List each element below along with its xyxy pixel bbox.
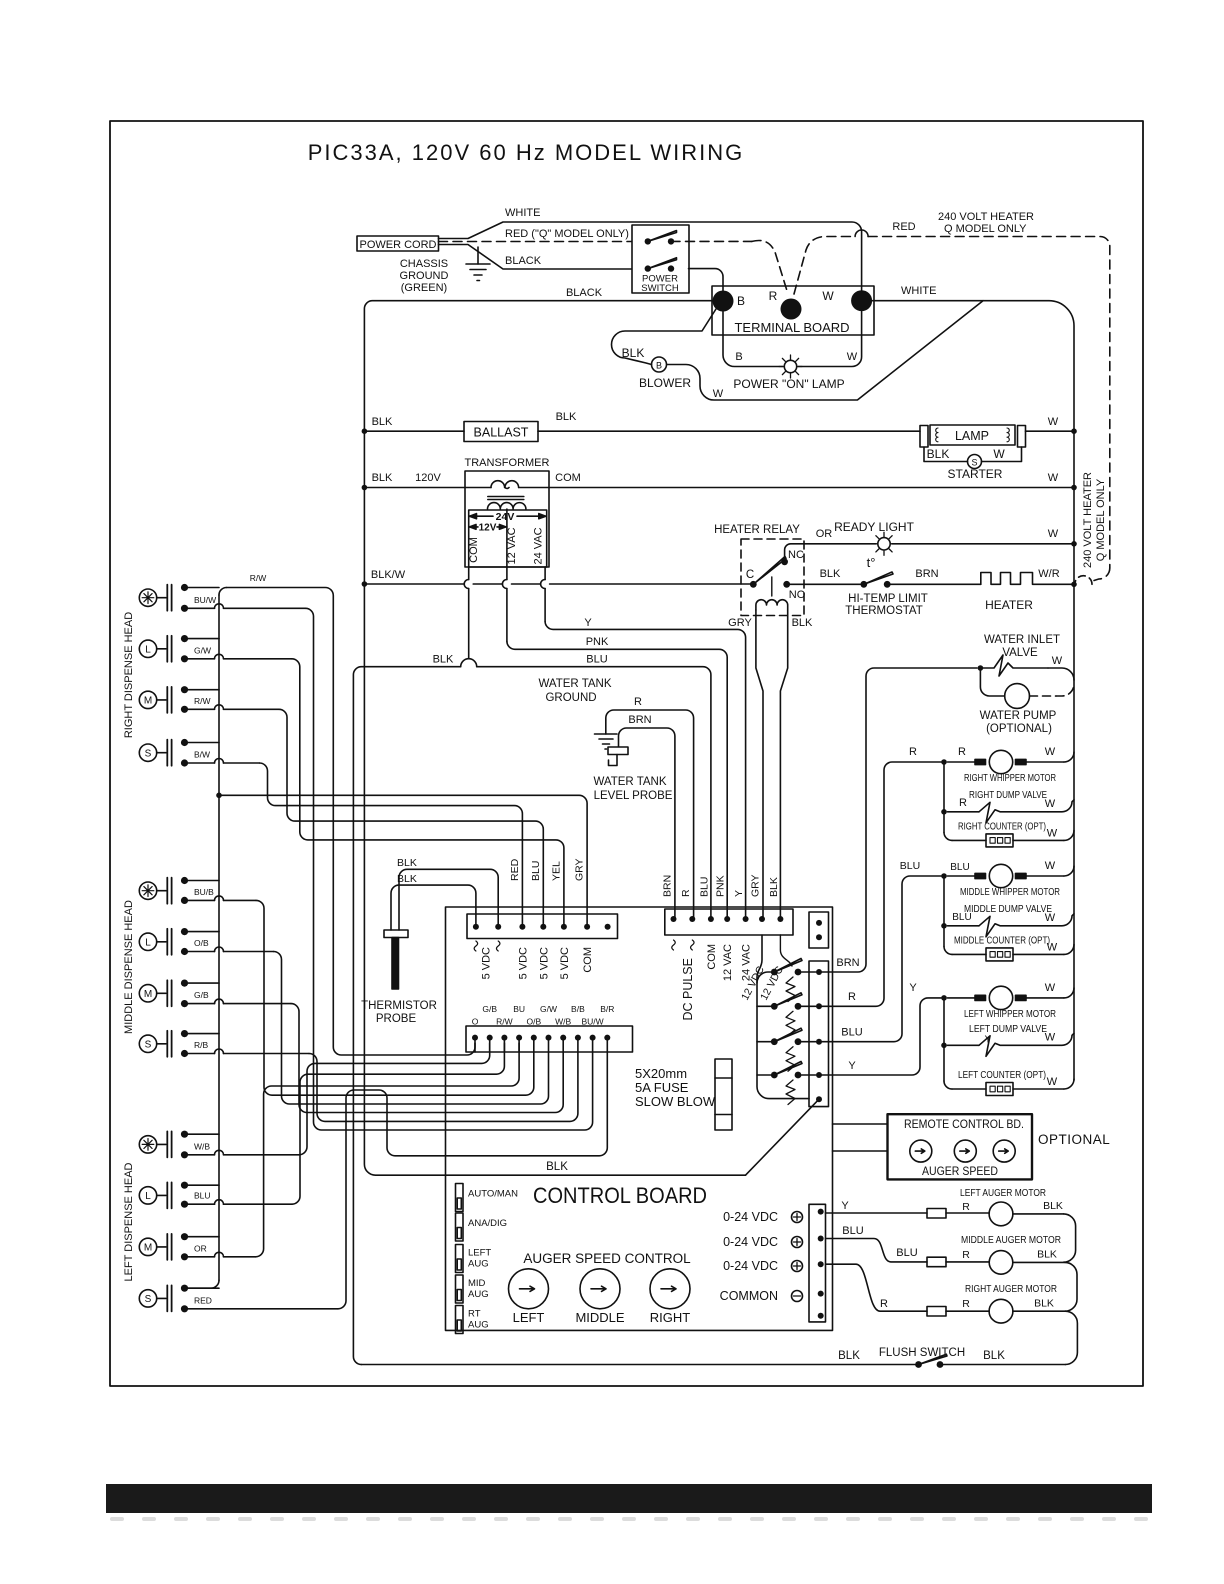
svg-text:TRANSFORMER: TRANSFORMER (465, 457, 550, 469)
label WATER PUMP (OPTIONAL) (980, 710, 1057, 735)
label W com line (1048, 472, 1059, 484)
svg-text:BLU: BLU (842, 1225, 863, 1237)
svg-text:GRY: GRY (728, 617, 752, 629)
wire thermistor BLK lower (391, 885, 476, 930)
svg-text:OR: OR (194, 1243, 207, 1253)
svg-text:W/B: W/B (555, 1017, 571, 1027)
svg-text:LEFT AUGER MOTOR: LEFT AUGER MOTOR (960, 1187, 1046, 1199)
svg-text:COM: COM (582, 947, 594, 973)
svg-text:O/B: O/B (526, 1017, 541, 1027)
dip switch ANA/DIG (456, 1213, 464, 1241)
label W ready light (1048, 528, 1059, 540)
label BLACK lower (566, 287, 603, 299)
svg-text:POWER "ON" LAMP: POWER "ON" LAMP (733, 377, 844, 391)
right dispense head S switch (139, 740, 171, 766)
label LEFT/AUG (468, 1248, 491, 1270)
label RT/AUG (468, 1309, 489, 1331)
wire G/B to J2 pin7 (291, 1004, 563, 1113)
svg-text:COM: COM (555, 472, 581, 484)
svg-text:W: W (713, 388, 724, 400)
label LEFT COUNTER (OPT) (958, 1069, 1046, 1081)
label B lamp loop (735, 351, 742, 363)
terminal B (713, 291, 746, 312)
svg-text:R: R (848, 991, 856, 1003)
wire G/W from head switch (181, 654, 292, 662)
svg-text:MIDDLE: MIDDLE (575, 1310, 624, 1325)
svg-text:WHITE: WHITE (901, 285, 936, 297)
relay 4 lever (774, 1062, 802, 1076)
wire W/B from head switch (181, 1150, 299, 1158)
svg-text:W: W (1047, 1076, 1058, 1088)
label POWER SWITCH (641, 274, 679, 295)
heater relay NC contact (781, 549, 804, 565)
node middle whipper junction (941, 873, 947, 879)
svg-text:BLU: BLU (900, 860, 920, 872)
svg-text:R: R (962, 1298, 970, 1310)
label W inlet valve (1052, 655, 1063, 667)
label W right whipper (1045, 746, 1056, 758)
svg-text:120V: 120V (415, 472, 441, 484)
terminal strip box (809, 1204, 826, 1322)
wire B/W to J1 RED (260, 763, 523, 927)
left auger resistor (927, 1209, 946, 1219)
label BLK com fork (433, 654, 454, 666)
svg-text:W: W (1045, 1031, 1056, 1043)
label O/B (194, 938, 209, 948)
svg-text:BLK: BLK (1043, 1200, 1063, 1212)
wire BRN probe to DC pulse (619, 728, 675, 919)
svg-text:B: B (735, 351, 742, 363)
label ANA/DIG (468, 1218, 507, 1229)
dip switch LEFT/AUG (456, 1245, 464, 1273)
label G/B (194, 990, 209, 1000)
svg-text:WHITE: WHITE (505, 207, 540, 219)
wire R/B from head switch (181, 1049, 309, 1057)
label R right auger (962, 1298, 970, 1310)
svg-text:W: W (847, 351, 858, 363)
power cord box (357, 236, 439, 251)
left auger motor (946, 1202, 1064, 1226)
svg-text:HEATER RELAY: HEATER RELAY (714, 524, 800, 536)
svg-text:R: R (959, 797, 967, 809)
label 24 VAC rotated (533, 527, 545, 564)
svg-text:5X20mm: 5X20mm (635, 1066, 687, 1081)
right dispense head * top contact (181, 584, 219, 591)
fluorescent lamp tube (930, 425, 1015, 445)
middle dispense head M switch (139, 980, 171, 1006)
svg-text:BRN: BRN (662, 875, 674, 897)
head common bus vertical (188, 588, 227, 1289)
heater relay armature link (771, 577, 773, 596)
relay block row wires (801, 972, 815, 1075)
middle dispense head L top contact (181, 928, 219, 935)
svg-text:GRY: GRY (750, 874, 762, 897)
label LEFT (513, 1310, 545, 1325)
wire right group vertical (944, 762, 952, 840)
relay 2 coil zigzag (786, 1011, 795, 1036)
blower circuit wire (612, 301, 984, 400)
node right whipper junction (941, 759, 947, 765)
svg-text:LEFT WHIPPER MOTOR: LEFT WHIPPER MOTOR (964, 1008, 1056, 1020)
wire BLK COM fork to flush line (353, 659, 468, 1365)
dip switch AUTO/MAN (456, 1184, 464, 1212)
svg-text:WATER INLET: WATER INLET (984, 634, 1060, 646)
node white bus at COM line (1071, 485, 1077, 491)
svg-text:S: S (145, 748, 152, 759)
label BLK thermostat (820, 568, 841, 580)
label HI-TEMP LIMIT THERMOSTAT (845, 593, 928, 617)
power switch pole 1 (red) (645, 231, 677, 245)
dip switch MID/AUG (456, 1275, 464, 1303)
right auger resistor (927, 1307, 946, 1317)
label Y wire (584, 617, 592, 629)
label LEFT DISPENSE HEAD rotated (123, 1162, 135, 1281)
svg-text:LEFT: LEFT (513, 1310, 545, 1325)
wire left group vertical (944, 998, 952, 1089)
svg-text:BU/B: BU/B (194, 887, 214, 897)
svg-text:R: R (962, 1201, 970, 1213)
wire BLU riser to J2 pin3 (292, 1043, 504, 1204)
svg-text:Q MODEL ONLY: Q MODEL ONLY (1095, 478, 1107, 561)
label BLK starter (927, 447, 950, 461)
transformer tap box (469, 510, 547, 567)
svg-text:OPTIONAL: OPTIONAL (1038, 1132, 1110, 1147)
label MIDDLE DISPENSE HEAD rotated (123, 900, 135, 1034)
wire red Q-model dashed from power cord (439, 241, 632, 243)
svg-text:THERMOSTAT: THERMOSTAT (845, 605, 923, 617)
svg-text:W: W (993, 447, 1005, 461)
svg-text:BLK: BLK (622, 346, 645, 360)
label 5 VDC pair rotated (481, 947, 493, 979)
svg-text:(GREEN): (GREEN) (401, 282, 447, 294)
label row O R/W O/B W/B BU/W (472, 1017, 604, 1027)
connector J2 box (466, 1026, 633, 1052)
svg-text:L: L (145, 644, 151, 655)
svg-text:W: W (1045, 982, 1056, 994)
svg-text:LEVEL PROBE: LEVEL PROBE (594, 790, 673, 802)
svg-text:RED: RED (509, 858, 521, 881)
label RED ("Q" MODEL ONLY) (505, 228, 629, 240)
svg-text:0-24 VDC: 0-24 VDC (723, 1210, 778, 1224)
label YEL rotated (551, 861, 563, 881)
svg-text:W: W (1045, 860, 1056, 872)
relay 3 coil zigzag (786, 1047, 795, 1072)
label WATER INLET VALVE (984, 634, 1060, 659)
node black bus at 120V line (362, 485, 368, 491)
svg-text:BLU: BLU (586, 654, 607, 666)
svg-text:O/B: O/B (194, 938, 209, 948)
label BLK thermistor 2 (397, 873, 417, 885)
right counter (952, 830, 1074, 847)
svg-text:W: W (1045, 746, 1056, 758)
remote control board box (888, 1114, 1033, 1179)
wire Y relay to left whipper group (822, 998, 941, 1075)
right whipper motor (947, 750, 1074, 773)
heater relay coil (756, 600, 788, 610)
middle auger motor (946, 1251, 1065, 1275)
svg-text:BLK: BLK (983, 1350, 1005, 1362)
water tank ground symbol (595, 720, 618, 749)
label R middle auger (962, 1249, 970, 1261)
svg-text:PNK: PNK (586, 636, 609, 648)
left whipper motor (947, 986, 1074, 1009)
svg-text:OR: OR (816, 528, 833, 540)
svg-text:AUG: AUG (468, 1259, 489, 1270)
label WATER TANK GROUND (538, 678, 611, 704)
label 5 VDC pin3 rotated (517, 947, 529, 979)
svg-text:BLOWER: BLOWER (639, 376, 691, 390)
label POWER ON LAMP (733, 377, 844, 391)
svg-text:BU: BU (513, 1004, 525, 1014)
connector J1 box (467, 914, 618, 939)
svg-text:S: S (145, 1294, 152, 1305)
svg-text:BRN: BRN (628, 714, 651, 726)
heater relay lever (753, 557, 786, 585)
svg-text:R/W: R/W (496, 1017, 513, 1027)
label W middle whipper (1045, 860, 1056, 872)
svg-text:LEFT: LEFT (468, 1248, 491, 1259)
svg-text:BRN: BRN (915, 568, 938, 580)
node left dump junction (941, 1043, 947, 1049)
wire BU/W riser to J2 (306, 608, 593, 1130)
svg-text:BU/W: BU/W (194, 595, 216, 605)
label PNK rotated dc (715, 875, 727, 897)
node black bus at ballast (362, 428, 368, 434)
label BLK middle auger (1037, 1249, 1057, 1261)
label STARTER (948, 467, 1003, 481)
heater relay NO contact (783, 581, 805, 601)
label BRN relay out (836, 957, 859, 969)
middle dispense head L switch (139, 929, 171, 955)
svg-text:BLU: BLU (530, 861, 542, 881)
label GRY rotated (574, 858, 586, 881)
svg-text:W: W (1045, 798, 1056, 810)
label Y left feed (909, 982, 917, 994)
label LEFT AUGER MOTOR (960, 1187, 1046, 1199)
knob RIGHT auger speed (650, 1269, 690, 1309)
label RIGHT DISPENSE HEAD rotated (123, 612, 135, 738)
wire Y to left auger (826, 1212, 928, 1214)
wire white from terminal W to right bus (872, 301, 1074, 1080)
svg-text:CHASSIS: CHASSIS (400, 258, 448, 270)
middle counter (952, 944, 1074, 961)
svg-text:FLUSH SWITCH: FLUSH SWITCH (879, 1347, 965, 1359)
connector 2-pin box (809, 912, 829, 948)
svg-text:BLK: BLK (792, 617, 813, 629)
label B/W (194, 750, 210, 760)
transformer primary winding (465, 481, 549, 489)
label 12 VAC rotated (506, 527, 518, 564)
left counter (952, 1079, 1074, 1096)
label BU/B (194, 887, 214, 897)
svg-text:RIGHT: RIGHT (650, 1310, 691, 1325)
svg-text:YEL: YEL (551, 861, 563, 881)
svg-text:W/R: W/R (1038, 568, 1059, 580)
terminal R (769, 289, 802, 320)
label GRY rotated dc (750, 874, 762, 897)
label RED rotated (509, 858, 521, 881)
relay 3 lever (774, 1028, 802, 1042)
svg-text:R/W: R/W (194, 696, 211, 706)
label AUTO/MAN (468, 1189, 518, 1200)
remote knob middle (954, 1140, 976, 1162)
label MIDDLE (575, 1310, 624, 1325)
label BLK left auger (1043, 1200, 1063, 1212)
svg-text:M: M (144, 1243, 152, 1254)
label BLU middle feed 2 (950, 862, 969, 873)
svg-text:RIGHT COUNTER (OPT): RIGHT COUNTER (OPT) (958, 820, 1046, 832)
svg-text:RED: RED (194, 1295, 212, 1305)
svg-text:MID: MID (468, 1278, 486, 1289)
svg-text:B/W: B/W (194, 750, 210, 760)
svg-text:C: C (746, 569, 754, 581)
svg-text:BLU: BLU (841, 1027, 862, 1039)
svg-text:RT: RT (468, 1309, 481, 1320)
svg-text:BLK: BLK (397, 873, 417, 885)
right auger motor (946, 1299, 1065, 1323)
svg-text:R/W: R/W (250, 573, 267, 583)
lamp filament right (1007, 428, 1009, 442)
svg-text:BLK: BLK (838, 1350, 860, 1362)
svg-text:AUG: AUG (468, 1320, 489, 1331)
svg-text:W: W (1052, 655, 1063, 667)
svg-text:W: W (1048, 472, 1059, 484)
label OR (194, 1243, 207, 1253)
left dispense head M switch (139, 1234, 171, 1260)
label BLK/W (371, 569, 406, 581)
wire BLU to middle auger (826, 1239, 928, 1262)
svg-text:W: W (1048, 528, 1059, 540)
label COM tap rotated (468, 537, 480, 563)
label BLACK upper (505, 255, 542, 267)
svg-text:R: R (909, 746, 917, 758)
relay block left bus (757, 935, 809, 1099)
wire BLK/W line to heater relay C (364, 583, 750, 585)
wire G/W to J1 YEL (292, 659, 564, 927)
water inlet valve coil (980, 655, 1074, 680)
relay 3 contacts (771, 1038, 822, 1045)
svg-text:ANA/DIG: ANA/DIG (468, 1218, 507, 1229)
power on lamp symbol (779, 355, 802, 378)
svg-text:AUG: AUG (468, 1289, 489, 1300)
heater relay K1 dashed box (741, 539, 804, 616)
wire PNK 12VAC to DC pulse (507, 641, 727, 919)
label 120V (415, 472, 441, 484)
wire R/W sw3 to J1 BLU (279, 709, 543, 926)
label R relay out (848, 991, 856, 1003)
label 0-24 VDC row 1 (723, 1210, 802, 1224)
svg-text:STARTER: STARTER (948, 467, 1003, 481)
svg-text:W: W (822, 289, 834, 303)
wire RED riser chain to J2 pin10 (338, 1052, 607, 1309)
label BRN rotated dc (662, 875, 674, 897)
right dispense head L switch (139, 636, 171, 662)
svg-text:RED: RED (892, 221, 915, 233)
wire NO to thermostat (790, 583, 860, 585)
right dispense head M switch (139, 687, 171, 713)
label BLU rotated (530, 861, 542, 881)
svg-text:Y: Y (985, 1035, 992, 1046)
svg-text:5 VDC: 5 VDC (559, 947, 571, 979)
svg-text:24 VAC: 24 VAC (533, 527, 545, 564)
middle dispense head * top contact (181, 877, 219, 884)
svg-text:BLK: BLK (433, 654, 454, 666)
svg-text:BLU: BLU (952, 912, 971, 923)
svg-text:0-24 VDC: 0-24 VDC (723, 1259, 778, 1273)
label DC PULSE rotated (681, 958, 695, 1021)
svg-text:W: W (1048, 416, 1059, 428)
label BLU auger (842, 1225, 863, 1237)
svg-text:5A FUSE: 5A FUSE (635, 1080, 689, 1095)
svg-text:BLK: BLK (556, 411, 577, 423)
svg-text:POWER CORD: POWER CORD (360, 239, 437, 251)
wire BU/B from head switch (181, 896, 256, 904)
wire middle group vertical (944, 876, 952, 954)
node middle dump junction (941, 923, 947, 929)
middle dump valve (947, 914, 1074, 937)
wire R relay to right whipper group (822, 762, 941, 1006)
remote knob left (910, 1140, 932, 1162)
transformer T1 outline (465, 471, 549, 567)
svg-text:BLACK: BLACK (505, 255, 542, 267)
label W blower loop (713, 388, 724, 400)
svg-text:RIGHT WHIPPER MOTOR: RIGHT WHIPPER MOTOR (964, 772, 1056, 784)
transformer COM lead with hop (464, 567, 469, 659)
svg-text:Y: Y (584, 617, 592, 629)
svg-text:W: W (1047, 827, 1058, 839)
label OPTIONAL (1038, 1132, 1110, 1147)
label CHASSIS GROUND (GREEN) (400, 258, 449, 294)
wire black bus from terminal B to left bus (364, 301, 712, 584)
label R left auger (962, 1201, 970, 1213)
heater relay coil lead GRY (756, 610, 763, 919)
label MID/AUG (468, 1278, 489, 1300)
label 0-24 VDC row 3 (723, 1259, 802, 1273)
node white bus at lamp (1071, 428, 1077, 434)
wire BLU relay to middle whipper group (822, 876, 941, 1042)
wire B/W from head switch (181, 759, 260, 767)
label W/R (1038, 568, 1059, 580)
wire GRY bus to J1 COM (219, 795, 587, 926)
terminal W (822, 289, 872, 311)
label WHITE (505, 207, 540, 219)
wire flush line right (943, 1364, 1065, 1366)
connector J1 pins (473, 924, 611, 930)
svg-text:BLU: BLU (699, 877, 711, 897)
svg-text:BALLAST: BALLAST (474, 426, 529, 440)
svg-text:AUGER SPEED CONTROL: AUGER SPEED CONTROL (523, 1251, 691, 1266)
svg-text:G/B: G/B (194, 990, 209, 1000)
label Y relay out (848, 1060, 856, 1072)
wire BU/W from head switch (181, 604, 306, 612)
flush switch (915, 1354, 947, 1368)
svg-text:GROUND: GROUND (545, 692, 596, 704)
svg-text:R: R (634, 696, 642, 708)
svg-text:RIGHT DISPENSE HEAD: RIGHT DISPENSE HEAD (123, 612, 135, 738)
label BLK blower (622, 346, 645, 360)
svg-text:24V: 24V (496, 511, 515, 523)
svg-text:W: W (1047, 941, 1058, 953)
label RED (194, 1295, 212, 1305)
wire Y 24VAC to DC pulse (545, 621, 746, 919)
svg-text:VALVE: VALVE (1002, 647, 1038, 659)
label W middle counter (1047, 941, 1058, 953)
svg-text:R: R (962, 1249, 970, 1261)
svg-text:AUGER SPEED: AUGER SPEED (922, 1164, 998, 1178)
title text (308, 140, 745, 165)
svg-text:HI-TEMP LIMIT: HI-TEMP LIMIT (848, 593, 928, 605)
wire remote control bottom (833, 1150, 888, 1152)
